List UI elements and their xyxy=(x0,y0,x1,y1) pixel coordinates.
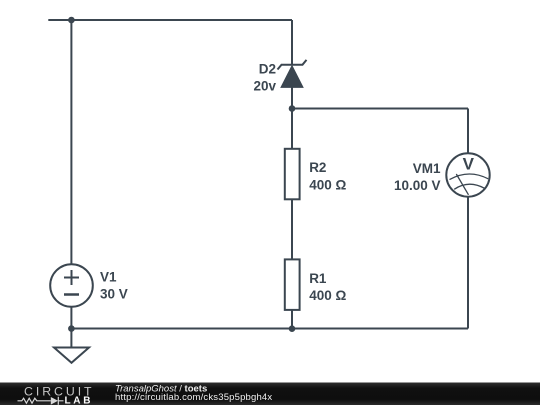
svg-text:R2: R2 xyxy=(309,160,326,175)
node junction bottom-left xyxy=(68,325,75,332)
svg-text:400 Ω: 400 Ω xyxy=(309,177,346,192)
svg-text:400 Ω: 400 Ω xyxy=(309,288,346,303)
voltage source V1 xyxy=(50,264,93,307)
wire left vertical xyxy=(70,20,72,265)
svg-text:R1: R1 xyxy=(309,271,327,286)
svg-text:LAB: LAB xyxy=(65,396,94,405)
label V1 value xyxy=(100,270,128,302)
wire right vertical top xyxy=(467,109,469,154)
resistor R2 xyxy=(285,149,300,200)
wire right vertical bottom xyxy=(467,197,469,329)
zener diode D2 xyxy=(278,60,307,88)
svg-text:VM1: VM1 xyxy=(413,161,441,176)
node junction middle-bottom xyxy=(289,325,296,332)
wire R2 to R1 xyxy=(291,199,293,260)
resistor R1 xyxy=(285,259,300,310)
wire zener to R2 xyxy=(291,87,293,149)
svg-text:30 V: 30 V xyxy=(100,287,128,302)
wire upper horizontal to meter xyxy=(292,108,468,110)
node junction middle-top xyxy=(289,105,296,112)
CircuitLab logo diode xyxy=(51,397,58,405)
ground xyxy=(54,329,89,363)
node junction top-left xyxy=(68,17,75,24)
svg-text:10.00 V: 10.00 V xyxy=(394,178,441,193)
wire middle vertical top xyxy=(291,20,293,65)
wire top horizontal xyxy=(48,19,292,21)
label R1 value xyxy=(309,271,346,303)
CircuitLab logo zigzag wire xyxy=(18,398,51,403)
svg-text:http://circuitlab.com/cks35p5p: http://circuitlab.com/cks35p5pbgh4x xyxy=(115,392,272,403)
svg-text:20v: 20v xyxy=(253,79,276,94)
wire R1 to bottom xyxy=(291,310,293,329)
wire bottom horizontal xyxy=(71,328,468,330)
label D2 value xyxy=(253,61,276,93)
svg-text:V: V xyxy=(463,155,475,174)
svg-text:V1: V1 xyxy=(100,270,117,285)
label VM1 value xyxy=(394,161,441,193)
label R2 value xyxy=(309,160,346,192)
wire V1 bottom xyxy=(70,307,72,329)
voltmeter VM1 xyxy=(446,153,489,196)
svg-text:D2: D2 xyxy=(259,61,276,76)
